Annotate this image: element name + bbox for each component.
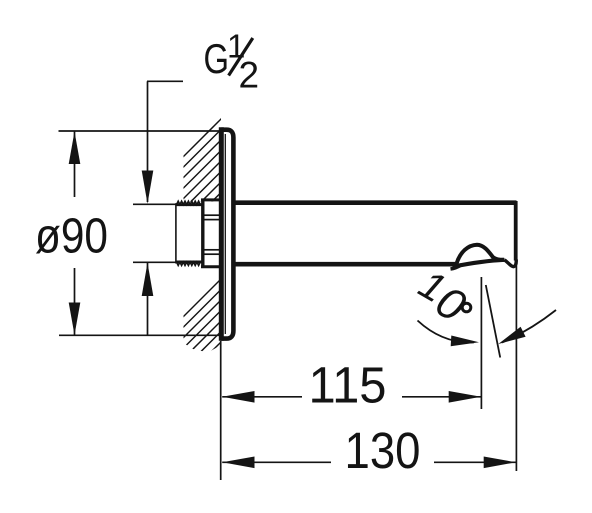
spout tip right edge	[514, 201, 518, 261]
outlet extension line	[480, 277, 482, 409]
threaded pipe stub	[175, 203, 177, 263]
115 right arrow	[449, 391, 481, 403]
130 dimension line left	[222, 461, 331, 463]
svg-text:ø90: ø90	[35, 210, 108, 264]
arrow down to thread top	[142, 171, 154, 204]
thread crests bottom	[177, 262, 201, 265]
130 dimension line right	[434, 461, 516, 463]
wall face line / flange rear edge	[219, 127, 224, 340]
flange dome outline	[221, 130, 233, 339]
G1/2 dimension line lower tail	[147, 263, 149, 335]
130 right arrow	[484, 457, 516, 469]
angle arc left	[418, 321, 475, 343]
G1/2 leader horizontal	[147, 80, 183, 82]
115 dimension line left	[222, 396, 302, 398]
115 left arrow	[222, 391, 254, 403]
svg-text:2: 2	[239, 55, 260, 96]
svg-text:130: 130	[345, 422, 421, 479]
wall hatching lower	[60, 240, 376, 440]
hex nut body G1/2 fitting	[201, 199, 204, 269]
thread bottom extension line	[133, 261, 176, 263]
dia90 dimension line lower segment	[74, 268, 76, 335]
dia90 top extension line	[59, 130, 221, 132]
spout outlet lip underside	[453, 260, 505, 267]
spout pipe bottom line	[233, 262, 457, 267]
130 left arrow	[222, 457, 254, 469]
115 dimension line right	[402, 396, 481, 398]
spout outlet lip left tail	[451, 265, 462, 269]
angle arc right	[502, 310, 556, 343]
spout outlet hook	[505, 260, 517, 267]
svg-text:115: 115	[309, 357, 387, 414]
flange inner face line	[224, 134, 226, 334]
thread top extension line	[133, 203, 176, 205]
spout outlet lip hump	[457, 245, 505, 264]
svg-text:G: G	[204, 35, 230, 82]
thread crests top	[177, 201, 201, 204]
tip extension line	[515, 266, 517, 472]
dia90 dimension line upper segment	[74, 132, 76, 198]
spout pipe top line	[233, 200, 516, 205]
spout face angle line	[486, 285, 500, 358]
G1/2 dimension line upper	[147, 81, 149, 202]
arrow up to dia90 top	[69, 132, 81, 165]
angle arc right arrow	[498, 327, 525, 344]
G1/2 label	[204, 28, 260, 96]
dia90 bottom extension line	[59, 334, 220, 336]
hex nut facet lines	[205, 214, 220, 216]
wall face extension line below flange	[220, 341, 222, 480]
angle arc left arrow	[451, 336, 479, 347]
arrow down to dia90 bottom	[69, 303, 81, 336]
arrow up to thread bottom	[142, 263, 154, 296]
wall hatching upper	[120, 80, 376, 220]
